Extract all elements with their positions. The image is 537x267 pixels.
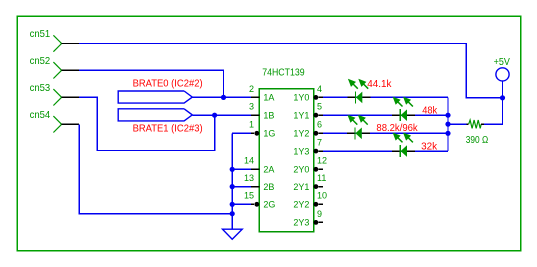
pin 11 inversion bubble bbox=[314, 184, 319, 189]
pin number 13 bbox=[244, 173, 254, 183]
pin name 2B bbox=[263, 182, 274, 192]
wire pin1 from ground net bbox=[232, 132, 251, 134]
svg-text:BRATE0 (IC2#2): BRATE0 (IC2#2) bbox=[133, 79, 203, 90]
svg-text:1A: 1A bbox=[263, 93, 274, 103]
wire cn52 down to 1A net bbox=[79, 70, 223, 97]
wire ground net vertical bbox=[231, 133, 233, 229]
svg-text:1G: 1G bbox=[263, 129, 275, 139]
pin number 4 bbox=[317, 84, 322, 94]
svg-text:14: 14 bbox=[244, 156, 254, 166]
pin 2 lead bbox=[251, 96, 259, 98]
pin 9 inversion bubble bbox=[314, 220, 319, 225]
svg-text:1: 1 bbox=[249, 120, 254, 130]
pin 7 inversion bubble bbox=[314, 149, 319, 154]
pin 10 inversion bubble bbox=[314, 202, 319, 207]
pin 9 lead bbox=[318, 221, 323, 223]
wire pin14 stub bbox=[232, 168, 251, 170]
LED D3 (88.2k/96k) bbox=[347, 115, 370, 140]
svg-text:1B: 1B bbox=[263, 110, 274, 120]
pin 12 inversion bubble bbox=[314, 167, 319, 172]
wire BRATE1 to pin 3 bbox=[192, 114, 251, 116]
pin 1 inversion bubble bbox=[254, 131, 259, 136]
pin 3 lead bbox=[251, 114, 259, 116]
pin name 2Y0 bbox=[293, 165, 309, 175]
pin name 2Y3 bbox=[293, 218, 309, 228]
svg-text:32k: 32k bbox=[421, 141, 438, 152]
pin 5 inversion bubble bbox=[314, 113, 319, 118]
pin 12 lead bbox=[318, 168, 323, 170]
svg-text:cn51: cn51 bbox=[30, 29, 51, 40]
svg-text:390 Ω: 390 Ω bbox=[466, 135, 489, 146]
pin number 10 bbox=[317, 191, 327, 201]
wire 1Y3 to bus bbox=[323, 150, 448, 152]
svg-text:1Y3: 1Y3 bbox=[293, 146, 309, 156]
svg-text:2: 2 bbox=[249, 84, 254, 94]
label +5V bbox=[494, 57, 510, 68]
label BRATE0 (IC2#2) bbox=[133, 79, 203, 90]
svg-text:2G: 2G bbox=[263, 200, 275, 210]
pin name 2Y2 bbox=[293, 200, 309, 210]
svg-text:7: 7 bbox=[317, 138, 322, 148]
pin number 14 bbox=[244, 156, 254, 166]
pin 11 lead bbox=[318, 186, 323, 188]
bus vertical bbox=[447, 97, 449, 151]
svg-text:2Y2: 2Y2 bbox=[293, 200, 309, 210]
junction pin15 bbox=[230, 202, 235, 207]
label BRATE1 (IC2#3) bbox=[133, 124, 203, 135]
wire bus to R1 bbox=[448, 123, 467, 125]
pin number 15 bbox=[244, 191, 254, 201]
wire pin13 stub bbox=[232, 186, 251, 188]
pin 7 lead bbox=[318, 150, 323, 152]
net label BRATE0 flag bbox=[118, 91, 192, 103]
label 74HCT139 bbox=[262, 67, 305, 78]
label 390ohm bbox=[466, 135, 489, 146]
pin number 11 bbox=[317, 173, 326, 183]
svg-text:9: 9 bbox=[317, 209, 322, 219]
pin name 1Y0 bbox=[293, 93, 309, 103]
svg-text:2Y3: 2Y3 bbox=[293, 218, 309, 228]
pin name 2A bbox=[263, 165, 274, 175]
junction +5V node bbox=[500, 95, 505, 100]
pin 6 inversion bubble bbox=[314, 131, 319, 136]
wire 1Y2 to bus bbox=[323, 132, 448, 134]
wire pin15 stub bbox=[232, 203, 251, 205]
svg-text:cn53: cn53 bbox=[30, 83, 51, 94]
label 32k bbox=[421, 141, 438, 152]
svg-text:1Y0: 1Y0 bbox=[293, 93, 309, 103]
junction at 1A net bbox=[221, 95, 226, 100]
pin 1 lead bbox=[251, 132, 254, 134]
wire cn53 to 1B net bbox=[79, 97, 215, 150]
ground symbol bbox=[223, 229, 243, 239]
pin 13 lead bbox=[251, 186, 259, 188]
svg-text:74HCT139: 74HCT139 bbox=[262, 67, 305, 78]
wire 1Y0 to bus bbox=[323, 96, 448, 98]
junction at 1B net bbox=[212, 113, 217, 118]
svg-text:4: 4 bbox=[317, 84, 322, 94]
svg-text:2Y1: 2Y1 bbox=[293, 182, 309, 192]
svg-text:1Y2: 1Y2 bbox=[293, 129, 309, 139]
pin number 6 bbox=[317, 120, 322, 130]
pin number 7 bbox=[317, 138, 322, 148]
resistor R1 zigzag bbox=[467, 120, 484, 128]
pin 4 inversion bubble bbox=[314, 95, 319, 100]
svg-text:5: 5 bbox=[317, 102, 322, 112]
LED D1 (44.1k) bbox=[347, 79, 370, 104]
junction bus resistor bbox=[445, 122, 450, 127]
svg-text:1Y1: 1Y1 bbox=[293, 110, 309, 120]
IC U1 74HCT139 box bbox=[259, 89, 313, 232]
label 88.2k/96k bbox=[376, 123, 418, 134]
pin 4 lead bbox=[318, 96, 323, 98]
pin name 1Y3 bbox=[293, 146, 309, 156]
svg-text:cn54: cn54 bbox=[30, 110, 51, 121]
pin name 1Y1 bbox=[293, 110, 309, 120]
junction pin14 bbox=[230, 167, 235, 172]
wire +5V circle stem bbox=[502, 81, 504, 98]
junction bus 1Y2 bbox=[445, 131, 450, 136]
label 48k bbox=[422, 106, 438, 117]
pin 14 lead bbox=[251, 168, 259, 170]
pin number 2 bbox=[249, 84, 254, 94]
svg-text:12: 12 bbox=[317, 156, 327, 166]
pin 6 lead bbox=[318, 132, 323, 134]
wire cn54 to ground rail bbox=[79, 124, 232, 213]
pin 15 lead bbox=[251, 203, 254, 205]
pin 10 lead bbox=[318, 203, 323, 205]
svg-text:13: 13 bbox=[244, 173, 254, 183]
wire cn51 to +5V node bbox=[79, 44, 502, 98]
pin name 2Y1 bbox=[293, 182, 309, 192]
wire R1 to +5V node bbox=[484, 98, 503, 124]
pin 5 lead bbox=[318, 114, 323, 116]
svg-text:15: 15 bbox=[244, 191, 254, 201]
svg-text:+5V: +5V bbox=[494, 57, 510, 68]
pin number 5 bbox=[317, 102, 322, 112]
svg-text:6: 6 bbox=[317, 120, 322, 130]
pin name 1A bbox=[263, 93, 274, 103]
svg-text:88.2k/96k: 88.2k/96k bbox=[376, 123, 418, 134]
connector cn51 bbox=[30, 29, 80, 52]
pin number 3 bbox=[249, 102, 254, 112]
svg-text:44.1k: 44.1k bbox=[367, 79, 392, 90]
pin number 1 bbox=[249, 120, 254, 130]
svg-text:3: 3 bbox=[249, 102, 254, 112]
svg-text:10: 10 bbox=[317, 191, 327, 201]
wire 1Y1 to bus bbox=[323, 114, 448, 116]
junction bus 1Y1 bbox=[445, 113, 450, 118]
svg-text:2A: 2A bbox=[263, 165, 274, 175]
pin name 1Y2 bbox=[293, 129, 309, 139]
connector cn52 bbox=[30, 56, 80, 79]
LED D2 (48k) bbox=[392, 97, 415, 122]
connector cn53 bbox=[30, 83, 80, 106]
svg-text:48k: 48k bbox=[422, 106, 438, 117]
svg-text:BRATE1 (IC2#3): BRATE1 (IC2#3) bbox=[133, 124, 203, 135]
pin number 9 bbox=[317, 209, 322, 219]
connector cn54 bbox=[30, 110, 80, 133]
wire BRATE0 to pin 2 bbox=[192, 96, 251, 98]
pin name 1B bbox=[263, 110, 274, 120]
pin name 1G bbox=[263, 129, 275, 139]
svg-text:2B: 2B bbox=[263, 182, 274, 192]
power symbol +5V circle bbox=[496, 68, 509, 81]
pin name 2G bbox=[263, 200, 275, 210]
svg-text:2Y0: 2Y0 bbox=[293, 165, 309, 175]
pin number 12 bbox=[317, 156, 327, 166]
junction pin13 bbox=[230, 184, 235, 189]
label 44.1k bbox=[367, 79, 392, 90]
svg-text:cn52: cn52 bbox=[30, 56, 51, 67]
LED D4 (32k) bbox=[392, 133, 415, 158]
pin 15 inversion bubble bbox=[254, 202, 259, 207]
net label BRATE1 flag bbox=[118, 109, 192, 121]
svg-text:11: 11 bbox=[317, 173, 326, 183]
junction ground rail bbox=[230, 211, 235, 216]
